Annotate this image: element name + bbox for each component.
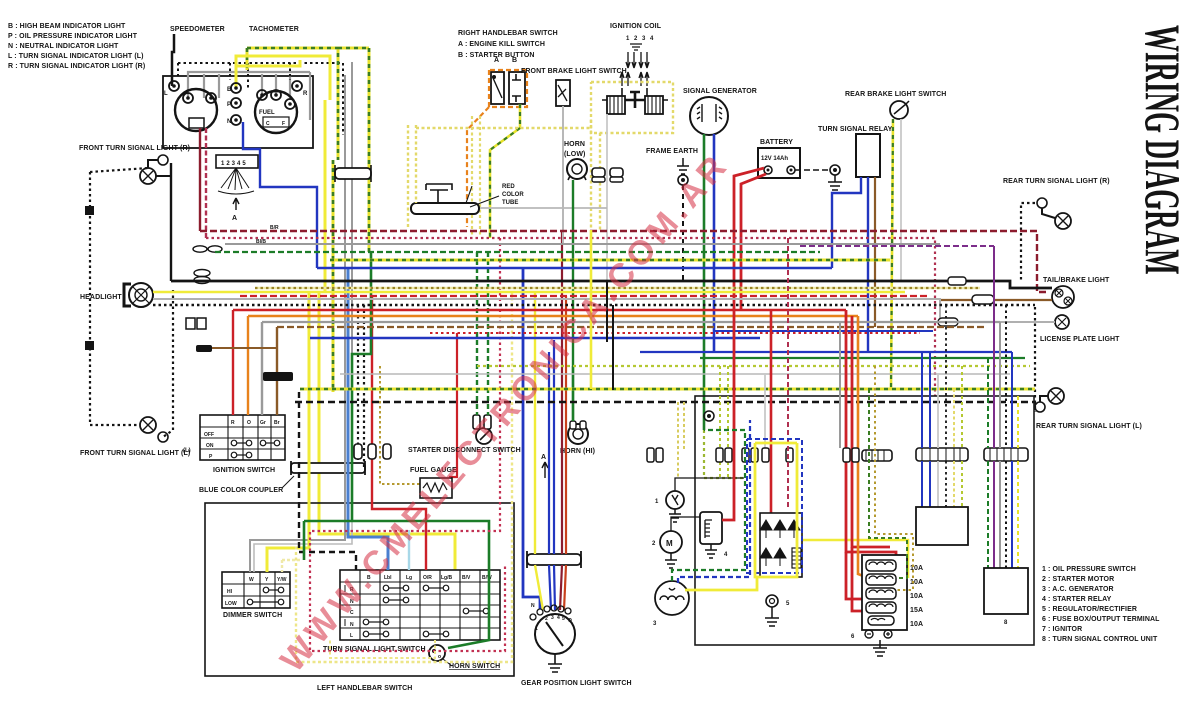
connector brown stub	[196, 345, 212, 352]
svg-text:B/V: B/V	[462, 575, 471, 581]
license plate light	[1055, 315, 1069, 329]
wire gray right drop pair	[309, 72, 311, 120]
wire bundle into ignitor	[921, 352, 923, 507]
wire pale yellow into dimmer Y/W	[282, 560, 300, 572]
svg-text:FRAME EARTH: FRAME EARTH	[646, 148, 698, 155]
svg-text:1: 1	[535, 626, 538, 632]
wire maroon pair from speedometer down	[199, 128, 201, 231]
svg-text:B: B	[512, 57, 517, 64]
svg-text:BLUE COLOR COUPLER: BLUE COLOR COUPLER	[199, 487, 283, 494]
ignition switch table	[200, 415, 285, 460]
wire gray band	[225, 243, 940, 245]
blue color coupler bar	[291, 463, 365, 473]
wire pale yellow loop around ignition coil	[591, 82, 673, 133]
wire green band dark	[700, 357, 1025, 359]
wire gray speedo 3	[218, 74, 220, 98]
wire black dashed frame earth drop	[682, 185, 684, 281]
svg-text:2: 2	[545, 616, 548, 622]
svg-text:FUEL: FUEL	[259, 110, 275, 116]
rear turn signal lamp R	[1037, 198, 1047, 208]
connector capsules on bundle	[354, 444, 362, 459]
svg-text:W: W	[249, 577, 254, 583]
wire green signal generator drop	[703, 134, 706, 430]
wire red into O/R	[372, 296, 426, 570]
spark arrows down	[626, 52, 649, 68]
wire red dotted band 2	[430, 332, 920, 334]
engine kill switch A	[491, 72, 504, 104]
wire black battery to earth	[795, 169, 830, 171]
connector pads left edge of box	[647, 448, 654, 462]
svg-text:A: A	[232, 215, 237, 222]
svg-text:15A: 15A	[910, 607, 923, 614]
wire green loop to horn switch	[304, 252, 489, 648]
wire blue band to relay	[317, 267, 832, 269]
svg-text:10A: 10A	[910, 579, 923, 586]
svg-text:B : HIGH BEAM INDICATOR LIGHT: B : HIGH BEAM INDICATOR LIGHT	[8, 23, 126, 30]
wire yellow band from headlight	[153, 291, 905, 294]
svg-text:L: L	[350, 633, 353, 639]
wire yellow-green dashed vertical to band	[338, 48, 369, 252]
wire yellow ac generator	[685, 577, 757, 590]
wire yellow vertical mid bundle	[590, 230, 593, 389]
wire black dotted down to turn L	[163, 290, 173, 437]
wire blue relay left	[832, 177, 861, 268]
svg-text:RIGHT HANDLEBAR SWITCH: RIGHT HANDLEBAR SWITCH	[458, 30, 558, 37]
wire red battery to starter relay	[722, 310, 734, 520]
svg-text:6 : FUSE BOX/OUTPUT TERMINAL: 6 : FUSE BOX/OUTPUT TERMINAL	[1042, 616, 1160, 623]
svg-text:1 2 3 4: 1 2 3 4	[626, 36, 655, 42]
wire orange ignition O	[247, 316, 249, 415]
wire brown relay drop	[874, 177, 876, 327]
svg-text:5: 5	[562, 616, 565, 622]
svg-text:DIMMER SWITCH: DIMMER SWITCH	[223, 612, 282, 619]
svg-text:SPEEDOMETER: SPEEDOMETER	[170, 26, 225, 33]
svg-text:SIGNAL GENERATOR: SIGNAL GENERATOR	[683, 88, 757, 95]
svg-text:COLOR: COLOR	[502, 192, 524, 198]
svg-text:HEADLIGHT: HEADLIGHT	[80, 294, 122, 301]
wire red gear	[564, 296, 566, 610]
wire yellow bend into cluster	[236, 56, 300, 66]
horn HI	[568, 424, 588, 444]
wire red to regulator	[770, 310, 773, 513]
tail brake light	[1052, 286, 1074, 308]
svg-text:(L): (L)	[183, 448, 191, 454]
svg-text:4: 4	[557, 615, 560, 621]
svg-text:8 : TURN SIGNAL CONTROL UNIT: 8 : TURN SIGNAL CONTROL UNIT	[1042, 636, 1158, 643]
wire blue gear pair	[549, 340, 555, 610]
svg-text:HORN: HORN	[564, 141, 585, 148]
wire gray thin band low	[340, 373, 1010, 375]
connector capsule on black line	[948, 277, 966, 285]
wire black dashed into B	[299, 392, 356, 570]
wire yellow gear	[535, 292, 543, 610]
svg-text:O: O	[247, 420, 251, 426]
svg-text:R: R	[231, 420, 235, 426]
svg-text:C: C	[266, 121, 270, 127]
turn signal control unit 8	[984, 568, 1028, 614]
wire gray into dimmer W	[250, 462, 345, 572]
right equipment box	[695, 396, 1034, 645]
starter button B	[509, 72, 525, 104]
wire red pair down to fuse box	[846, 310, 896, 565]
wire gray harness over cluster	[188, 72, 310, 98]
wire pale dotted pair right	[472, 116, 480, 236]
svg-text:3 : A.C. GENERATOR: 3 : A.C. GENERATOR	[1042, 586, 1114, 593]
starter disconnect switch	[476, 428, 492, 444]
wire yellow-green dashed loop around tach	[247, 48, 338, 160]
battery earth terminal	[830, 165, 840, 175]
wire yellow-green dashed vertical right of cluster	[332, 160, 335, 392]
svg-text:Y/W: Y/W	[277, 577, 287, 583]
arrow A below connector	[233, 198, 239, 210]
svg-text:FRONT TURN SIGNAL LIGHT (L): FRONT TURN SIGNAL LIGHT (L)	[80, 450, 190, 457]
harness fan below connector	[221, 168, 249, 190]
svg-text:ON: ON	[206, 443, 214, 449]
wire yellow feed from B bulb	[236, 56, 330, 100]
rear turn signal lamp L	[1048, 388, 1064, 404]
regulator rectifier 5	[760, 513, 802, 577]
wire gray speedo 2	[203, 74, 205, 98]
wire gray tach 1	[261, 74, 263, 95]
wire black dotted right edge drop	[1034, 307, 1036, 412]
svg-text:IGNITION SWITCH: IGNITION SWITCH	[213, 467, 275, 474]
svg-text:IGNITION COIL: IGNITION COIL	[610, 23, 662, 30]
arrow A above gear switch	[542, 462, 548, 478]
wire dotted black cluster loop	[178, 63, 343, 135]
wire gray ignition Gr	[261, 322, 263, 415]
wire black main band	[171, 281, 1052, 288]
front turn signal lamp R	[158, 155, 168, 165]
rear brake light switch	[890, 101, 908, 119]
wire red fuel gauge feed	[449, 333, 457, 477]
svg-text:M: M	[666, 539, 673, 548]
wire yellow-green drop from starter button	[490, 104, 520, 238]
wire crimson dotted loop	[310, 238, 505, 651]
svg-text:7 : IGNITOR: 7 : IGNITOR	[1042, 626, 1082, 633]
svg-text:P: P	[227, 102, 231, 108]
ac generator 3	[655, 581, 689, 615]
wire black dotted bundle pair	[358, 305, 364, 470]
wire blue into Lbl	[348, 268, 388, 570]
svg-text:B: B	[227, 87, 232, 93]
wire maroon gear	[560, 231, 562, 610]
svg-text:OFF: OFF	[204, 432, 214, 438]
svg-text:L : TURN SIGNAL INDICATOR LIGH: L : TURN SIGNAL INDICATOR LIGHT (L)	[8, 53, 144, 60]
indicator bulb R	[292, 81, 302, 91]
svg-text:TUBE: TUBE	[502, 200, 518, 206]
svg-text:o: o	[438, 654, 441, 660]
svg-text:LEFT HANDLEBAR SWITCH: LEFT HANDLEBAR SWITCH	[317, 685, 412, 692]
svg-text:WIRING DIAGRAM: WIRING DIAGRAM	[1135, 25, 1191, 275]
wire black dotted left edge	[89, 172, 91, 425]
starter relay 4	[700, 512, 722, 544]
signal generator	[690, 97, 728, 135]
wire black dashed band low	[295, 401, 1035, 404]
wire black rear turn R drop	[1021, 203, 1035, 281]
turn signal relay	[856, 134, 880, 177]
svg-text:1 : OIL PRESSURE SWITCH: 1 : OIL PRESSURE SWITCH	[1042, 566, 1136, 573]
wire blue thick to gear N	[523, 268, 540, 609]
svg-text:A: A	[494, 57, 499, 64]
connector 12345	[216, 155, 258, 168]
svg-text:P : OIL PRESSURE INDICATOR LIG: P : OIL PRESSURE INDICATOR LIGHT	[8, 33, 138, 40]
wire black vertical mid	[607, 281, 613, 390]
wire blue short band	[715, 330, 933, 332]
svg-text:R: R	[303, 91, 308, 97]
wire green pair to starter disconnect	[477, 252, 488, 415]
front turn signal lamp L	[140, 417, 156, 433]
svg-text:B/W: B/W	[482, 575, 492, 581]
svg-text:LOW: LOW	[225, 601, 237, 607]
legend top-left indicator lights	[8, 23, 145, 70]
connector bar above ignition switch	[263, 372, 293, 381]
svg-text:10A: 10A	[910, 621, 923, 628]
wire blue band 3	[640, 351, 1012, 353]
wire blue band 2	[310, 337, 760, 340]
svg-text:RED: RED	[502, 184, 515, 190]
wire yellow top link regulator	[755, 442, 797, 445]
svg-text:2 : STARTER MOTOR: 2 : STARTER MOTOR	[1042, 576, 1114, 583]
wire gray vertical centre	[839, 322, 841, 448]
bolt terminal inside box	[704, 411, 714, 421]
wire red ignition R	[232, 310, 234, 415]
indicator bulb N	[231, 115, 241, 125]
wire green-yellow dotted band low	[477, 365, 1030, 367]
connector capsule on gray line	[938, 318, 958, 326]
wire blue dashed ac generator	[678, 420, 750, 583]
wire maroon dashed band B/R	[200, 231, 1046, 292]
wire pale yellow drops from coil	[591, 120, 600, 230]
wire brown to tail light	[940, 299, 1052, 301]
svg-text:12345: 12345	[221, 161, 248, 167]
wire white from coil	[606, 114, 608, 281]
wire tan dotted band	[255, 287, 980, 290]
wire pale yellow dotted loop	[296, 292, 512, 662]
speedometer	[175, 89, 217, 131]
wire green dashed ac generator	[672, 430, 745, 581]
wire tan dotted bundle vertical	[380, 366, 420, 484]
svg-text:4 : STARTER RELAY: 4 : STARTER RELAY	[1042, 596, 1112, 603]
svg-text:FRONT BRAKE LIGHT SWITCH: FRONT BRAKE LIGHT SWITCH	[521, 68, 627, 75]
svg-text:Br: Br	[274, 420, 280, 426]
svg-text:O: O	[568, 618, 572, 624]
wire yellow-green dashed band	[330, 259, 890, 262]
svg-text:A : ENGINE KILL SWITCH: A : ENGINE KILL SWITCH	[458, 41, 545, 48]
battery	[758, 148, 800, 178]
wire red solid band	[233, 309, 846, 312]
wire gray from front brake switch	[562, 106, 564, 244]
wire green to horn HI	[572, 366, 574, 421]
wire red dashed band	[240, 295, 930, 297]
svg-text:N: N	[531, 603, 535, 609]
front brake light switch	[556, 80, 570, 106]
svg-text:BATTERY: BATTERY	[760, 139, 793, 146]
oil pressure switch 1	[666, 491, 684, 509]
connector row left in box	[716, 448, 723, 462]
wire brown dashed band 2	[277, 326, 985, 328]
ground below gear switch	[548, 654, 562, 672]
wire gray vertical pad	[764, 374, 766, 448]
horn switch	[429, 645, 445, 661]
wire light green into Lg	[408, 530, 410, 570]
gear harness coupler bar	[527, 554, 581, 565]
svg-text:Gr: Gr	[260, 420, 266, 426]
svg-text:N: N	[227, 119, 231, 125]
wire blue signal generator drop	[713, 134, 716, 352]
indicator bulb L	[169, 81, 179, 91]
wire gray rear brake drop	[900, 119, 902, 281]
wire green dashed band	[215, 251, 820, 253]
wire violet band	[800, 245, 994, 247]
ignition coil body	[602, 88, 668, 114]
wire green-yellow dashed rear brake drop	[891, 119, 893, 389]
indicator bulb P	[231, 98, 241, 108]
red color tube assembly	[480, 207, 607, 209]
svg-text:Lg/B: Lg/B	[441, 575, 452, 581]
horn LOW	[567, 159, 587, 179]
tachometer with fuel gauge	[255, 91, 297, 133]
svg-text:REAR TURN SIGNAL LIGHT (R): REAR TURN SIGNAL LIGHT (R)	[1003, 178, 1110, 185]
legend bottom right	[1042, 566, 1160, 643]
svg-text:N : NEUTRAL INDICATOR LIGHT: N : NEUTRAL INDICATOR LIGHT	[8, 43, 119, 50]
wire red battery pair	[734, 168, 764, 310]
wire red into lower fuses	[846, 552, 866, 599]
wire yellow vertical from tach area	[319, 100, 455, 570]
frame earth symbol	[677, 158, 689, 174]
svg-text:L: L	[164, 91, 168, 97]
wire gray band 2	[262, 321, 1000, 323]
svg-text:F: F	[282, 121, 285, 127]
fuse box 6	[862, 555, 907, 638]
wire gray band from headlight to license light	[153, 299, 1055, 322]
svg-text:O/R: O/R	[423, 575, 432, 581]
svg-text:REAR BRAKE LIGHT SWITCH: REAR BRAKE LIGHT SWITCH	[845, 91, 946, 98]
connector pair at headlight	[194, 270, 210, 277]
connector blobs on dotted runs	[85, 206, 94, 215]
wire black speedometer feed	[172, 34, 174, 86]
ground below fuse box	[873, 640, 887, 656]
svg-text:5 : REGULATOR/RECTIFIER: 5 : REGULATOR/RECTIFIER	[1042, 606, 1137, 613]
svg-text:TACHOMETER: TACHOMETER	[249, 26, 299, 33]
wire pale yellow verticals left-mid	[408, 125, 416, 227]
wire crimson dotted band	[206, 238, 935, 396]
svg-text:Lg: Lg	[406, 575, 412, 581]
wire orange kill switch loop	[489, 70, 527, 107]
wire orange drop to band	[467, 107, 489, 227]
wire green branch from fuse	[869, 389, 907, 578]
tscu connector	[984, 448, 1028, 461]
gear position light switch	[535, 614, 575, 654]
connector capsule bar right of cluster	[335, 168, 371, 179]
svg-text:TURN SIGNAL RELAY: TURN SIGNAL RELAY	[818, 126, 893, 133]
wire black dotted band B/W	[153, 304, 1035, 306]
wire blue from N bulb	[243, 122, 317, 268]
wire orange band	[248, 315, 858, 318]
svg-text:LICENSE PLATE LIGHT: LICENSE PLATE LIGHT	[1040, 336, 1120, 343]
wire blue relay right	[867, 177, 869, 352]
wire blue dashed loop regulator	[747, 439, 802, 573]
wire tan dotted pair into pads	[720, 366, 728, 478]
svg-text:N: N	[350, 622, 354, 628]
wire green horn low drop	[572, 180, 574, 421]
svg-text:12V 14Ah: 12V 14Ah	[761, 156, 788, 162]
svg-text:HI: HI	[227, 589, 233, 595]
wire orange down to fuse	[858, 316, 866, 577]
wire yellow loop regulator	[755, 443, 797, 577]
ground ignition coil top	[630, 44, 642, 50]
wire pale dotted to oil pressure switch	[678, 402, 684, 478]
wire pale yellow dotted inner	[330, 640, 435, 658]
dimmer switch table	[222, 572, 290, 608]
turn signal light switch table	[340, 570, 500, 640]
svg-text:10A: 10A	[910, 593, 923, 600]
wire brown ignition Br	[276, 327, 278, 415]
svg-text:HORN SWITCH: HORN SWITCH	[449, 663, 500, 670]
svg-text:GEAR POSITION LIGHT SWITCH: GEAR POSITION LIGHT SWITCH	[521, 680, 632, 687]
connector row centre in box	[843, 448, 850, 462]
headlight	[129, 283, 153, 307]
starter motor 2	[660, 531, 682, 553]
ignitor 7 connectors	[916, 448, 968, 461]
indicator bulb B	[231, 83, 241, 93]
svg-text:REAR TURN SIGNAL LIGHT (L): REAR TURN SIGNAL LIGHT (L)	[1036, 423, 1142, 430]
connector pads mid	[592, 168, 605, 177]
wire crimson dashed to regulator right	[787, 238, 789, 510]
svg-text:TAIL/BRAKE LIGHT: TAIL/BRAKE LIGHT	[1043, 277, 1110, 284]
left handlebar switch box	[205, 503, 514, 676]
instrument cluster box	[163, 76, 313, 148]
wire yellow-green dashed band low	[300, 388, 1035, 391]
fuel gauge resistor box	[420, 478, 452, 498]
wire gray tach 2	[275, 74, 277, 95]
wire black from turn R to headlight junction	[170, 163, 172, 281]
wire yellow jog right of regulator	[802, 540, 908, 578]
ignitor 7 box	[916, 507, 968, 545]
wire gray long pair to dimmer	[345, 62, 352, 462]
svg-text:A: A	[541, 454, 546, 461]
wire yellow into dimmer Y	[267, 292, 309, 572]
spark arrows up	[620, 72, 649, 86]
svg-text:R : TURN SIGNAL INDICATOR LIGH: R : TURN SIGNAL INDICATOR LIGHT (R)	[8, 63, 145, 70]
svg-text:FRONT TURN SIGNAL LIGHT (R): FRONT TURN SIGNAL LIGHT (R)	[79, 145, 190, 152]
headlight shell	[124, 284, 131, 306]
svg-text:3: 3	[551, 615, 554, 621]
wire bundle into tscu	[987, 358, 989, 568]
svg-text:10A: 10A	[910, 565, 923, 572]
svg-text:(LOW): (LOW)	[564, 151, 586, 158]
wire green dashed into box	[704, 430, 744, 478]
